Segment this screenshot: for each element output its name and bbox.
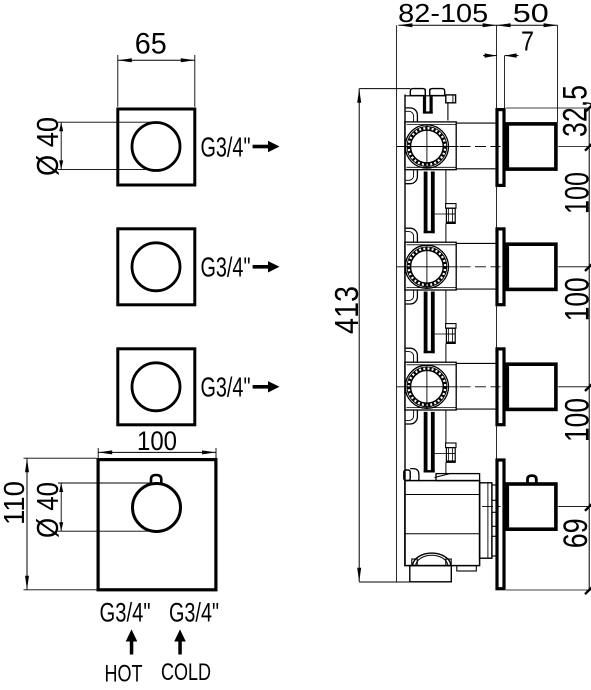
union tab inner line b 3: [451, 329, 453, 342]
union tab inner line a 4: [447, 448, 449, 461]
65 dimension line: [118, 59, 195, 61]
pipe bar left to unit 2: [424, 172, 428, 234]
100 dimension line: [98, 451, 216, 453]
block 2 bottom chamfer: [407, 287, 457, 289]
tick mark y=266.8: [585, 263, 591, 271]
block 3 top chamfer: [407, 364, 457, 366]
right extension line y=266.8: [558, 266, 591, 268]
top right tab unit1: [446, 95, 456, 103]
handle tip extension line: [557, 25, 559, 122]
pipe bar cap unit 4: [424, 470, 435, 472]
slot bottom unit1: [423, 111, 433, 113]
bottom extension of 413 dim: [359, 581, 410, 583]
outlet circle 3: [132, 363, 180, 411]
svg-text:G3/4": G3/4": [100, 597, 151, 627]
handle 4: [507, 484, 556, 529]
union tab unit 4: [446, 448, 455, 463]
outlet circle 1: [132, 123, 180, 171]
pipe bar left to unit 4: [424, 412, 428, 473]
union tab unit 3: [446, 328, 455, 343]
left ear above block: [406, 228, 418, 242]
top dimension line: [398, 24, 557, 26]
extension line for 7 dim: [504, 56, 506, 108]
right extension line y=386.8: [558, 386, 591, 388]
svg-text:110: 110: [0, 481, 31, 525]
outlet circle 2: [132, 243, 180, 291]
dome foot right: [446, 559, 451, 565]
block 3 bottom chamfer: [407, 407, 457, 409]
slot bar right unit1: [430, 97, 433, 114]
svg-text:100: 100: [137, 426, 177, 456]
svg-text:100: 100: [559, 172, 591, 214]
left ear below block: [406, 170, 418, 184]
svg-text:100: 100: [559, 277, 591, 321]
right dimension chain line: [588, 108, 590, 590]
stem top line 3: [456, 362, 495, 364]
handle 1: [507, 124, 556, 169]
back wall extension line: [396, 25, 398, 582]
slot bar left unit1: [423, 97, 426, 114]
thermostat square plate: [98, 460, 216, 590]
right profile below tab 2: [445, 223, 447, 242]
right profile above block1: [447, 103, 449, 121]
leader line bottom circle 1: [58, 168, 156, 170]
body left edge: [404, 95, 406, 567]
svg-text:G3/4": G3/4": [201, 252, 251, 283]
stem top line 1: [456, 122, 495, 124]
stem top line 2: [456, 242, 495, 244]
leader line top circle 1: [58, 121, 156, 123]
left ear below block: [406, 410, 418, 424]
top extension of 413 dim: [359, 88, 410, 90]
bottom dome: [413, 553, 452, 565]
escutcheon flange 1: [497, 110, 504, 186]
block 1 top chamfer: [407, 124, 457, 126]
thin link line to tab 4: [435, 452, 447, 454]
stem bottom line 3: [456, 408, 495, 410]
cartridge tab 2: [492, 512, 496, 526]
left ear above block: [406, 108, 418, 122]
left ear above block: [406, 348, 418, 362]
cartridge stack: [480, 483, 492, 558]
front wall plane line: [496, 25, 498, 590]
valve block 2: [405, 242, 456, 290]
right profile below tab 3: [445, 343, 447, 362]
top union nut left: [410, 89, 425, 96]
handle 3: [507, 364, 556, 409]
block band line 2: [405, 533, 480, 535]
tick mark y=146.5: [585, 142, 591, 150]
block band line 1: [405, 494, 480, 496]
union tab inner line b 4: [451, 448, 453, 461]
union tab bottom cap 4: [447, 460, 455, 462]
leader line bottom thermostat circle: [58, 530, 150, 532]
crosshair horizontal 1: [397, 146, 459, 148]
svg-text:G3/4": G3/4": [169, 597, 219, 627]
union tab division 3: [446, 333, 455, 335]
G3/4" arrow 1: [253, 145, 269, 149]
110 dimension line: [26, 458, 28, 590]
valve port circles 2: [405, 245, 448, 288]
svg-text:G3/4": G3/4": [201, 131, 251, 162]
small knob on thermostat circle: [151, 475, 161, 484]
square outlet plate 1: [118, 109, 195, 185]
413 dimension line: [358, 89, 360, 582]
valve port circles 1: [405, 125, 448, 168]
extension line left of 65 dim: [117, 55, 119, 107]
svg-text:69: 69: [557, 518, 591, 548]
thermostat collar band: [436, 474, 480, 481]
valve block 3: [405, 362, 456, 410]
pipe bar cap unit 3: [424, 351, 435, 353]
union tab cap unit 2: [446, 204, 456, 209]
extension top of 110 dim: [24, 457, 97, 459]
square outlet plate 3: [118, 349, 195, 425]
right extension line y=590: [506, 589, 591, 591]
thermostat big block: [405, 481, 480, 566]
tick mark y=590: [585, 586, 591, 594]
pipe bar right to unit 3: [431, 292, 435, 354]
pipe bar left to unit 3: [424, 292, 428, 354]
right extension line y=146.5: [558, 146, 591, 148]
block 2 top chamfer: [407, 244, 457, 246]
pipe bar right to unit 2: [431, 172, 435, 234]
svg-text:7: 7: [521, 26, 534, 57]
union tab bottom cap 3: [447, 341, 455, 343]
center dash line 3: [460, 386, 501, 388]
left clamp unit 4: [404, 470, 410, 480]
tick mark y=386.8: [585, 383, 591, 391]
union tab division 4: [446, 452, 455, 454]
svg-text:100: 100: [559, 398, 591, 442]
tick mark y=108: [585, 104, 591, 112]
escutcheon flange 2: [497, 229, 504, 305]
leader vertical thermostat circle: [60, 483, 62, 531]
svg-text:HOT: HOT: [105, 661, 143, 688]
extension bottom of 110 dim: [24, 589, 97, 591]
cartridge tab 3: [492, 536, 496, 556]
union tab inner line b 2: [451, 209, 453, 222]
crosshair vertical 1: [426, 125, 428, 169]
svg-text:Ø 40: Ø 40: [30, 117, 65, 176]
union tab cap unit 4: [446, 443, 456, 448]
leader vertical circle 1: [60, 122, 62, 169]
right profile above tab 2: [445, 170, 447, 204]
block 1 bottom chamfer: [407, 166, 457, 168]
handle 2: [507, 244, 556, 289]
center dash line 2: [460, 266, 501, 268]
cartridge tab 1: [492, 485, 496, 500]
svg-text:32,5: 32,5: [556, 85, 591, 137]
union tab division 2: [446, 213, 455, 215]
union tab bottom cap 2: [447, 221, 455, 223]
right extension line y=506.6: [558, 506, 591, 508]
hot inlet arrow: [130, 640, 134, 655]
dome foot left: [412, 559, 417, 565]
crosshair horizontal 3: [397, 386, 459, 388]
G3/4" arrow 2: [253, 265, 269, 269]
right profile above tab 4: [445, 410, 447, 443]
crosshair vertical 3: [426, 365, 428, 409]
leader line top thermostat circle: [58, 482, 153, 484]
left ear below block: [406, 290, 418, 304]
7 dimension arrows: [483, 55, 497, 57]
crosshair horizontal 2: [397, 266, 459, 268]
thermostat knob circle: [133, 484, 181, 532]
cold inlet arrow: [178, 640, 182, 655]
pipe bar right to unit 4: [431, 412, 435, 473]
svg-text:G3/4": G3/4": [201, 372, 251, 403]
knob on handle 4: [528, 476, 537, 483]
svg-text:COLD: COLD: [161, 659, 211, 686]
stem bottom line 1: [456, 168, 495, 170]
right profile above tab 3: [445, 290, 447, 324]
escutcheon flange 3: [497, 349, 504, 425]
nut gap line left: [424, 89, 426, 96]
thin link line to tab 2: [435, 213, 447, 215]
valve block 1: [405, 122, 456, 170]
valve port circles 3: [405, 365, 448, 408]
union tab inner line a 2: [447, 209, 449, 222]
G3/4" arrow 3: [253, 385, 269, 389]
tick mark y=506.6: [585, 502, 591, 510]
union tab unit 2: [446, 208, 455, 223]
center dash line 4: [482, 506, 501, 508]
union tab cap unit 3: [446, 324, 456, 329]
stem bottom line 2: [456, 288, 495, 290]
right profile below tab 4: [445, 462, 447, 473]
extension line right of 65 dim: [194, 55, 196, 107]
svg-text:65: 65: [135, 28, 167, 61]
nut gap line right: [429, 89, 431, 96]
svg-text:50: 50: [513, 0, 549, 28]
pipe bar cap unit 2: [424, 231, 435, 233]
top union nut right: [430, 89, 445, 96]
crosshair vertical 2: [426, 245, 428, 289]
mounting foot: [410, 566, 452, 582]
escutcheon flange 4: [497, 460, 504, 589]
bottom step right: [457, 566, 477, 571]
extension left of 100 dim: [97, 448, 99, 459]
extension right of 100 dim: [215, 448, 217, 459]
thin link line to tab 3: [435, 333, 447, 335]
body top edge: [405, 95, 446, 97]
collar diagonal line: [435, 474, 451, 478]
center dash line 1: [460, 146, 501, 148]
square outlet plate 2: [118, 229, 195, 305]
right extension line y=108: [506, 107, 591, 109]
union tab inner line a 3: [447, 329, 449, 342]
